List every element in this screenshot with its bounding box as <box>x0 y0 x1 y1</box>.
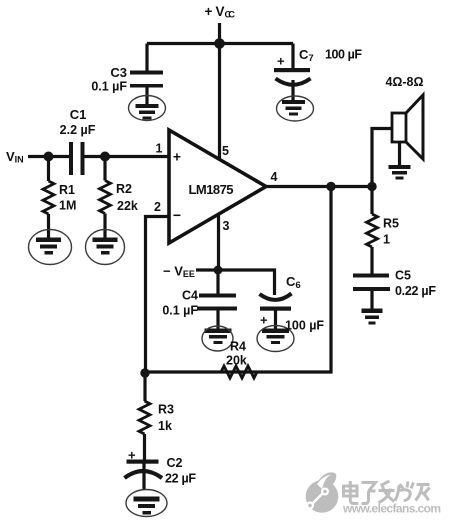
capacitor C5 plates <box>353 274 390 292</box>
wire R2 lead <box>103 157 106 181</box>
watermark text 电子发烧友 <box>344 481 430 504</box>
wire output pin4 <box>266 185 372 188</box>
svg-text:0.1 µF: 0.1 µF <box>162 304 198 318</box>
svg-text:R4: R4 <box>230 340 246 354</box>
wire R1 bottom lead <box>47 214 50 238</box>
svg-text:R3: R3 <box>158 403 174 417</box>
ground C6 <box>262 329 289 345</box>
svg-text:3: 3 <box>223 219 230 233</box>
watermark logo elecfans <box>306 472 339 512</box>
wire speaker ground stem <box>398 142 401 165</box>
ground C2 <box>134 497 160 515</box>
label C1 <box>60 107 96 137</box>
speaker LS1 <box>392 95 423 159</box>
svg-text:VIN: VIN <box>6 149 24 165</box>
junction feedback bottom node <box>140 368 149 377</box>
capacitor C7 plates (electrolytic) <box>274 68 311 85</box>
capacitor C6 plates (electrolytic) <box>260 294 292 311</box>
ground speaker <box>389 165 411 180</box>
svg-text:4: 4 <box>271 170 278 184</box>
op-amp U1 LM1875 triangle <box>169 130 266 243</box>
resistor R3 zigzag <box>139 401 150 434</box>
wire C3 bottom lead <box>145 87 148 104</box>
svg-text:C5: C5 <box>395 269 411 283</box>
junction VCC node <box>214 38 225 49</box>
label C5 <box>395 269 436 299</box>
svg-text:−: − <box>173 207 181 223</box>
watermark url www.elecfans.com <box>342 502 441 516</box>
svg-text:1M: 1M <box>59 199 76 213</box>
svg-text:C4: C4 <box>182 289 198 303</box>
label C7 <box>299 47 314 64</box>
highlight ellipse R1 ground <box>29 230 72 265</box>
svg-text:+: + <box>128 448 136 463</box>
label C3 <box>91 65 127 94</box>
junction output speaker node <box>367 182 376 191</box>
wire VEE rail <box>196 270 275 295</box>
ground C4 <box>205 329 232 345</box>
highlight ellipse R2 ground <box>86 230 125 265</box>
wire VIN input <box>28 155 69 158</box>
label pin 3 <box>223 219 230 233</box>
wire C6 bottom lead <box>274 309 277 330</box>
svg-text:CC: CC <box>225 10 236 20</box>
wire C7 bottom lead <box>291 80 294 100</box>
label pin 1 <box>156 142 163 156</box>
highlight ellipse C4 ground <box>202 326 233 351</box>
resistor R5 zigzag <box>367 214 378 247</box>
svg-text:+: + <box>277 54 285 69</box>
highlight ellipse C7 ground <box>277 96 314 121</box>
svg-text:C1: C1 <box>70 107 87 122</box>
label LM1875 <box>189 182 234 197</box>
highlight ellipse C3 ground <box>129 96 166 121</box>
svg-text:0.22 µF: 0.22 µF <box>395 284 436 298</box>
label pin 5 <box>222 144 229 158</box>
wire R1 lead <box>47 157 50 182</box>
ground C5 <box>362 309 383 325</box>
wire feedback right branch <box>146 187 332 373</box>
svg-text:22 µF: 22 µF <box>165 472 196 486</box>
wire C4 bottom lead <box>216 309 219 329</box>
svg-text:5: 5 <box>222 144 229 158</box>
ground R1 <box>36 238 61 255</box>
junction R2 node <box>100 152 110 162</box>
label +VCC <box>205 4 236 20</box>
ground C3 <box>134 104 159 120</box>
label R2 <box>116 182 138 213</box>
svg-text:20k: 20k <box>226 354 247 368</box>
svg-text:R1: R1 <box>59 183 75 197</box>
wire C2 ground lead <box>142 463 145 490</box>
svg-text:0.1 µF: 0.1 µF <box>91 80 127 94</box>
capacitor C3 plates <box>130 71 163 88</box>
svg-text:R5: R5 <box>383 217 399 231</box>
wire +VCC stub <box>218 23 221 44</box>
label pin 2 <box>154 200 161 214</box>
svg-text:+: + <box>205 4 213 19</box>
svg-text:C2: C2 <box>167 456 183 470</box>
wire R5 to C5 <box>370 247 373 275</box>
wire C3 top lead <box>145 44 148 72</box>
wire R3 to C2 <box>143 434 146 461</box>
svg-text:22k: 22k <box>117 199 138 213</box>
wire C1 to pin1 <box>84 155 170 158</box>
svg-text:LM1875: LM1875 <box>189 182 234 197</box>
junction VEE node <box>214 266 223 275</box>
label op-amp minus input <box>173 207 181 223</box>
svg-text:1k: 1k <box>158 419 172 433</box>
ground R2 <box>93 238 118 255</box>
svg-text:2: 2 <box>154 200 161 214</box>
svg-text:+: + <box>173 149 181 165</box>
highlight ellipse C6 ground <box>257 326 294 352</box>
resistor R1 zigzag <box>43 181 54 214</box>
label C7 value 100uF <box>325 48 362 62</box>
svg-text:100 µF: 100 µF <box>325 48 362 62</box>
svg-text:+: + <box>260 313 268 328</box>
label C2 plus <box>128 448 136 463</box>
junction VIN node <box>44 152 54 162</box>
capacitor C2 plates (electrolytic) <box>125 460 163 479</box>
wire C7 top lead <box>291 44 294 69</box>
wire pin3 supply <box>217 212 220 270</box>
svg-text:2.2 µF: 2.2 µF <box>60 123 96 137</box>
capacitor C4 plates <box>197 294 237 311</box>
wire R5 top lead <box>370 187 373 215</box>
label R3 <box>158 403 174 434</box>
svg-text:V: V <box>216 4 225 19</box>
label op-amp plus input <box>173 149 181 165</box>
wire VCC rail <box>147 42 293 45</box>
resistor R2 zigzag <box>100 181 111 214</box>
wire C4 top lead <box>216 270 219 295</box>
label C6 <box>286 274 301 291</box>
svg-text:1: 1 <box>383 233 390 247</box>
label VIN <box>6 149 24 165</box>
wire C5 ground lead <box>370 290 373 309</box>
wire pin2 feedback <box>146 217 171 374</box>
svg-text:www.elecfans.com: www.elecfans.com <box>342 502 441 516</box>
label -VEE <box>163 264 195 280</box>
highlight ellipse C2 ground <box>126 490 167 517</box>
label R4 <box>226 340 247 368</box>
wire R3 top lead <box>143 373 146 401</box>
junction output feedback node <box>326 182 335 191</box>
capacitor C1 plates <box>69 142 85 175</box>
wire pin5 supply <box>218 44 221 161</box>
label C7 plus <box>277 54 285 69</box>
svg-text:C6: C6 <box>286 274 301 291</box>
svg-text:1: 1 <box>156 142 163 156</box>
svg-text:C3: C3 <box>110 65 127 80</box>
label R1 <box>59 183 76 213</box>
svg-text:− VEE: − VEE <box>163 264 195 280</box>
label C6 value 100uF <box>285 319 324 333</box>
label C4 <box>162 289 198 318</box>
label C6 plus <box>260 313 268 328</box>
wire speaker branch <box>372 129 392 187</box>
svg-text:100 µF: 100 µF <box>285 319 324 333</box>
label C2 <box>165 456 196 486</box>
label pin 4 <box>271 170 278 184</box>
svg-text:R2: R2 <box>116 182 132 196</box>
ground C7 <box>282 100 305 116</box>
label R5 <box>383 217 399 247</box>
resistor R4 zigzag <box>221 366 257 378</box>
svg-text:4Ω-8Ω: 4Ω-8Ω <box>386 75 424 89</box>
label speaker impedance <box>386 75 424 89</box>
wire R2 bottom lead <box>103 214 106 239</box>
svg-text:C7: C7 <box>299 47 314 64</box>
